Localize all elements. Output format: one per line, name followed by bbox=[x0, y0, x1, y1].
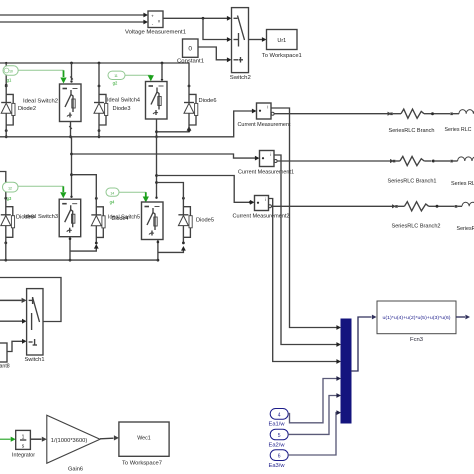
diode D4 bbox=[91, 197, 105, 245]
label Current Measurement1 bbox=[238, 169, 294, 175]
constant C8 (cropped) bbox=[0, 343, 7, 362]
wire CM3 to mux input3 bbox=[269, 199, 342, 364]
wire g3 gate green bbox=[18, 185, 63, 187]
svg-text:Diode2: Diode2 bbox=[18, 106, 36, 112]
label Switch1 bbox=[25, 357, 45, 363]
wire branch to Switch2 in2 bbox=[203, 18, 232, 42]
svg-text:Ideal Switch5: Ideal Switch5 bbox=[108, 215, 140, 221]
svg-text:4: 4 bbox=[278, 412, 281, 418]
label Ideal Switch2 bbox=[23, 98, 58, 104]
label Integrator bbox=[12, 453, 35, 459]
wire Switch1 in2 bbox=[0, 319, 27, 324]
wire g2 gate green bbox=[125, 74, 151, 76]
svg-text:g3: g3 bbox=[7, 196, 12, 201]
arrow g4 into Ideal Switch5 gate bbox=[143, 192, 149, 202]
inductor Series RLC2 bbox=[462, 202, 474, 206]
resistor Series RLC Branch1 bbox=[393, 156, 458, 165]
svg-text:Diode5: Diode5 bbox=[196, 217, 214, 223]
label Diode4 bbox=[112, 216, 129, 222]
port Ea1/w bbox=[270, 409, 288, 420]
svg-text:Voltage Measurement1: Voltage Measurement1 bbox=[125, 30, 186, 36]
wire CM3 feed bbox=[157, 176, 255, 205]
svg-text:Diode6: Diode6 bbox=[199, 98, 217, 104]
current sensor CM1 bbox=[257, 103, 272, 119]
label Ideal Switch5 bbox=[108, 215, 140, 221]
label Diode5 bbox=[196, 217, 214, 223]
label Fcn3 bbox=[410, 337, 423, 343]
label To Workspace7 bbox=[122, 460, 162, 466]
inductor Series RLC1 bbox=[458, 157, 474, 161]
wire Switch3-Diode4 bottom link bbox=[70, 244, 99, 251]
arrow g3 into Ideal Switch3 gate bbox=[60, 186, 66, 198]
port Ea3/w bbox=[270, 450, 288, 461]
resistor Series RLC Branch2 bbox=[395, 202, 462, 211]
diode D6 bbox=[184, 85, 198, 133]
wire Switch5-Diode5 bottom link bbox=[158, 246, 186, 252]
wire CM1 output to RLC1 bbox=[271, 112, 391, 116]
svg-text:Ea2/w: Ea2/w bbox=[269, 442, 285, 448]
label Ideal Switch4 bbox=[107, 98, 140, 104]
wire bus to Diode3 bbox=[98, 63, 100, 85]
svg-text:To Workspace1: To Workspace1 bbox=[262, 53, 302, 59]
label g4 bbox=[110, 200, 115, 205]
wire CM2 to mux input2 bbox=[274, 155, 341, 347]
label Diode6 bbox=[199, 98, 217, 104]
label SeriesRLC Branch bbox=[389, 128, 435, 134]
port g3 oval bbox=[3, 182, 19, 192]
label g3 bbox=[7, 196, 12, 201]
wire mux output to Fcn3 bbox=[351, 315, 377, 371]
wire right phase vertical bbox=[155, 137, 158, 199]
port g4 oval bbox=[106, 188, 119, 196]
wire Diode3 to bottom bus row1 bbox=[98, 129, 101, 138]
wire bottom bus row1 to Current Measurement bbox=[0, 109, 257, 137]
gain Gain6 triangle bbox=[47, 415, 100, 463]
svg-text:11: 11 bbox=[114, 74, 118, 78]
port g1 oval bbox=[3, 66, 18, 76]
svg-text:SeriesRLC Branch: SeriesRLC Branch bbox=[389, 128, 435, 134]
wire bus to Ideal Switch4 top bbox=[161, 63, 163, 81]
wire left phase vertical bbox=[70, 137, 73, 198]
svg-text:Ideal Switch2: Ideal Switch2 bbox=[23, 98, 58, 104]
wire - source line to Voltage Measurement - input bbox=[0, 20, 148, 25]
diode D5 bbox=[178, 197, 192, 245]
wire Gain6 to Wec1 bbox=[100, 435, 119, 440]
wire Diode2 to bottom bus row1 bbox=[5, 129, 8, 138]
svg-text:Current Measurement2: Current Measurement2 bbox=[233, 214, 290, 220]
label Current Measurement2 bbox=[233, 214, 290, 220]
label Series RLC bbox=[445, 127, 472, 133]
port g2 oval bbox=[108, 71, 125, 79]
svg-text:Ideal Switch3: Ideal Switch3 bbox=[24, 214, 58, 220]
svg-text:12: 12 bbox=[8, 187, 12, 191]
wire Ea1/w to mux input4 bbox=[288, 376, 341, 423]
integrator block 1/s bbox=[16, 430, 31, 449]
wire Ea2/w to mux input5 bbox=[288, 393, 341, 434]
label Ea1/w bbox=[269, 422, 285, 428]
wire CM3 output to RLC3 bbox=[268, 204, 396, 208]
current sensor CM2 bbox=[260, 151, 275, 167]
wire g1 gate green bbox=[18, 69, 63, 71]
svg-text:To Workspace7: To Workspace7 bbox=[122, 460, 162, 466]
wire Switch2 out to Ur1 bbox=[249, 37, 267, 42]
svg-text:Ur1: Ur1 bbox=[277, 38, 286, 44]
svg-text:10: 10 bbox=[9, 69, 13, 73]
svg-text:Ea1/w: Ea1/w bbox=[269, 422, 285, 428]
wire bus to Diode2 bbox=[5, 63, 8, 86]
diode D8 bbox=[1, 197, 15, 245]
wire Ideal Switch2 bottom to bus bbox=[69, 122, 72, 139]
ideal switch S5 bbox=[142, 202, 164, 240]
wire g4 gate green bbox=[119, 191, 146, 193]
wire Switch5 bottom junction bbox=[157, 240, 160, 262]
mux M1 bbox=[341, 319, 351, 423]
svg-text:Series RL: Series RL bbox=[451, 181, 474, 187]
label Ideal Switch3 bbox=[24, 214, 58, 220]
wire top DC bus row1 bbox=[0, 62, 189, 65]
wire green into Integrator bbox=[0, 437, 16, 442]
svg-text:g2: g2 bbox=[113, 80, 118, 85]
label Series R2 bbox=[457, 226, 474, 232]
label SeriesRLC Branch1 bbox=[388, 179, 437, 185]
function Fcn3 bbox=[377, 301, 456, 334]
svg-text:g4: g4 bbox=[110, 200, 115, 205]
label Constant1 bbox=[177, 58, 204, 64]
wire Integrator to Gain6 bbox=[30, 437, 46, 442]
wire bus to Diode6 bbox=[188, 63, 190, 85]
wire Switch4-Diode6 bottom link bbox=[157, 126, 192, 132]
svg-text:Integrator: Integrator bbox=[12, 453, 35, 459]
wire Switch1 output return bbox=[0, 278, 61, 322]
wire Diode4 top branch bbox=[72, 175, 97, 197]
label g2 bbox=[113, 80, 118, 85]
block Ur1 To Workspace1 bbox=[267, 30, 298, 50]
wire CM1 to mux input1 bbox=[271, 108, 341, 330]
wire - source line to Voltage Measurement + input bbox=[0, 13, 148, 18]
wire bottom bus row2 bbox=[0, 259, 158, 261]
port Ea2/w bbox=[270, 429, 288, 440]
wire edge to Diode8 top bbox=[0, 172, 6, 198]
svg-text:i: i bbox=[270, 152, 271, 157]
svg-text:Series RLC: Series RLC bbox=[445, 127, 472, 133]
switch U-Switch2 bbox=[232, 8, 249, 73]
wire Constant8 to Switch1 in3 bbox=[7, 339, 27, 352]
svg-text:14: 14 bbox=[110, 191, 114, 195]
label g1 bbox=[7, 77, 12, 82]
label Gain6 bbox=[68, 467, 83, 473]
svg-text:Switch2: Switch2 bbox=[230, 75, 251, 81]
svg-text:Wec1: Wec1 bbox=[137, 436, 150, 442]
svg-text:Constant8: Constant8 bbox=[0, 363, 10, 369]
svg-text:Ideal Switch4: Ideal Switch4 bbox=[107, 98, 140, 104]
label Ea2/w bbox=[269, 442, 285, 448]
ideal switch S2 bbox=[60, 84, 82, 122]
wire Constant1 to Switch2 in3 bbox=[198, 47, 232, 62]
wire bus to Ideal Switch2 top bbox=[70, 63, 73, 83]
svg-text:5: 5 bbox=[278, 433, 281, 439]
block Wec1 To Workspace7 bbox=[119, 422, 169, 456]
svg-text:i: i bbox=[267, 105, 268, 110]
diode D2 bbox=[1, 85, 15, 133]
svg-text:Fcn3: Fcn3 bbox=[410, 337, 423, 343]
wire Ea3/w to mux input6 bbox=[288, 410, 341, 455]
diode D3 bbox=[94, 85, 108, 133]
label Diode8 bbox=[16, 215, 34, 221]
label Diode3 bbox=[113, 106, 131, 112]
svg-text:Switch1: Switch1 bbox=[25, 357, 45, 363]
svg-text:Gain6: Gain6 bbox=[68, 467, 83, 473]
ideal switch S3 bbox=[59, 199, 80, 237]
wire Switch1 in1 bbox=[0, 298, 27, 303]
wire Ideal Switch4 bottom junction bbox=[155, 119, 158, 138]
svg-text:1/(1000*3600): 1/(1000*3600) bbox=[51, 438, 88, 444]
arrow g2 into Ideal Switch4 gate bbox=[148, 75, 154, 81]
svg-text:SeriesRLC Branch2: SeriesRLC Branch2 bbox=[392, 224, 441, 230]
label Diode2 bbox=[18, 106, 36, 112]
voltage sensor VM1 bbox=[148, 11, 163, 28]
label Voltage Measurement1 bbox=[125, 30, 186, 36]
label To Workspace1 bbox=[262, 53, 302, 59]
svg-text:6: 6 bbox=[278, 454, 281, 460]
wire Fcn3 output bbox=[456, 315, 470, 320]
current sensor CM3 bbox=[255, 196, 269, 211]
ideal switch S4 bbox=[146, 82, 168, 120]
wire Diode5 top branch bbox=[157, 183, 184, 198]
svg-text:Current Measurement: Current Measurement bbox=[238, 122, 292, 128]
svg-text:Ea3/w: Ea3/w bbox=[269, 463, 285, 469]
label Series RL1 bbox=[451, 181, 474, 187]
svg-text:SeriesRLC Branch1: SeriesRLC Branch1 bbox=[388, 179, 437, 185]
switch U-Switch1 bbox=[27, 289, 43, 355]
svg-text:i: i bbox=[265, 197, 266, 202]
label SeriesRLC Branch2 bbox=[392, 224, 441, 230]
svg-text:SeriesR: SeriesR bbox=[457, 226, 474, 232]
arrow g1 into Ideal Switch2 gate bbox=[60, 70, 66, 83]
wire CM2 output to RLC2 bbox=[274, 159, 394, 163]
wire CM2 feed bbox=[72, 154, 260, 160]
constant C1 value 0 bbox=[183, 39, 199, 57]
svg-text:u(1)*u(4)+u(2)*u(5)+u(3)*u(6): u(1)*u(4)+u(2)*u(5)+u(3)*u(6) bbox=[383, 315, 452, 320]
svg-text:Current Measurement1: Current Measurement1 bbox=[238, 169, 294, 175]
svg-text:0: 0 bbox=[188, 46, 192, 53]
wire Switch3 bottom junction bbox=[69, 237, 72, 262]
label Current Measurement bbox=[238, 122, 292, 128]
inductor Series RLC bbox=[459, 110, 474, 114]
svg-text:+: + bbox=[151, 14, 154, 19]
svg-text:g1: g1 bbox=[7, 77, 12, 82]
label Ea3/w bbox=[269, 463, 285, 469]
svg-text:Diode3: Diode3 bbox=[113, 106, 131, 112]
wire Diode8 to bottom bus row2 bbox=[4, 241, 7, 262]
label Switch2 bbox=[230, 75, 251, 81]
resistor Series RLC Branch bbox=[390, 109, 459, 118]
label Constant8 bbox=[0, 363, 10, 369]
wire VM1 output to Switch2 in1 bbox=[163, 16, 232, 21]
